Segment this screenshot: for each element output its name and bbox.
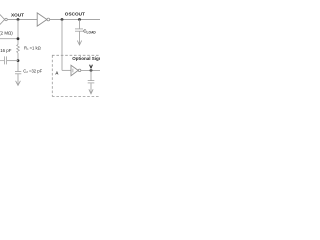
capacitor CLOAD (horizontal plates) [75,28,83,30]
svg-text:OSCOUT: OSCOUT [65,12,85,17]
dashed box: Optional Signal Gating [52,54,100,56]
ground [16,81,21,86]
svg-text:(2 MΩ): (2 MΩ) [0,31,13,36]
inverter U3 output bubble [78,69,81,72]
pin label Y with leader [90,65,93,69]
wire [17,53,19,71]
capacitor 16 pF (vertical plates) [4,56,6,64]
wire buffer output [81,69,100,71]
wire [79,31,81,44]
capacitor (optional load, horizontal plates) [88,80,95,82]
wire [90,70,92,80]
ground [89,89,93,94]
op-amp U1 (inverter, cut off at left edge) [0,14,5,26]
wire [17,20,19,45]
wire [17,74,19,84]
junction dot [90,69,93,72]
wire to crystal (off-screen left) [7,60,18,62]
wire to feedback resistor (2 M ohm) off-screen [0,38,18,40]
ground [77,41,81,46]
wire OSCOUT node [50,19,100,21]
wire [90,83,92,93]
resistor RS (vertical zigzag) [17,44,20,52]
inverter U2 output bubble [47,18,50,21]
svg-text:C₂ =32 pF: C₂ =32 pF [23,68,42,73]
svg-text:Rₛ ≈1 kΩ: Rₛ ≈1 kΩ [24,46,41,51]
svg-text:Optional Signal Gating: Optional Signal Gating [72,56,100,61]
wire XOUT node [7,19,37,21]
svg-text:A: A [55,71,59,76]
op-amp U3 (optional buffer) [71,65,78,75]
svg-text:XOUT: XOUT [11,13,24,18]
junction dot [61,18,64,21]
capacitor C2 (horizontal plates) [15,71,21,73]
junction dot [17,59,20,62]
inverter U1 output bubble [5,18,7,20]
junction dot [78,18,81,21]
wire to optional buffer input [61,20,63,71]
op-amp U2 (main oscillator inverter) [37,13,47,26]
junction dot [17,18,20,21]
junction dot [17,37,20,40]
buffer symbol mark "1" [72,69,74,73]
svg-text:CLOAD: CLOAD [83,29,96,35]
wire [79,20,81,29]
svg-text:16 pF: 16 pF [0,48,12,53]
